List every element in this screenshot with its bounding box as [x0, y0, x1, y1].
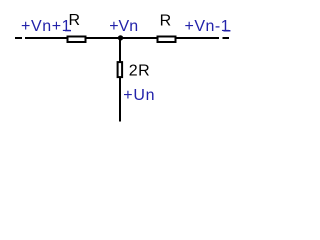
svg-text:2R: 2R	[129, 63, 151, 80]
wire: vertical below 2R to output	[119, 78, 121, 122]
foot serif of 1 in +Vn+1	[65, 30, 71, 31]
svg-text:+Vn+1: +Vn+1	[21, 18, 71, 35]
wire: right continuation dash	[223, 37, 230, 39]
wire: left horizontal segment to R	[25, 37, 68, 39]
wire: vertical from node to 2R	[119, 38, 121, 62]
resistor R (left)	[68, 37, 86, 43]
resistor R (right)	[158, 37, 176, 43]
resistor 2R (vertical)	[118, 62, 123, 77]
svg-text:R: R	[160, 13, 172, 30]
node +Vn junction dot	[118, 35, 123, 40]
wire: left continuation dash	[15, 37, 22, 39]
svg-text:+Un: +Un	[123, 87, 155, 104]
wire: right horizontal segment	[176, 37, 219, 39]
svg-text:+Vn: +Vn	[109, 18, 138, 35]
wire: segment from left R through node to right R	[86, 37, 158, 39]
svg-text:+Vn-1: +Vn-1	[185, 18, 231, 35]
foot serif of 1 in +Vn-1	[223, 30, 230, 32]
